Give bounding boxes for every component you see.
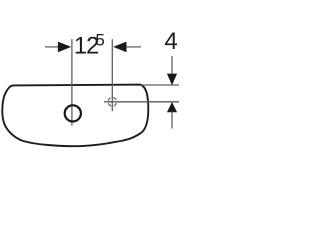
- arrowhead left (points right): [58, 42, 71, 53]
- right extension line / centre-mark vertical: [111, 39, 113, 111]
- svg-text:4: 4: [164, 28, 177, 55]
- arrowhead up: [167, 102, 177, 112]
- dimension line 12.5 right tail: [126, 46, 141, 48]
- centre-mark dashed circle: [108, 98, 117, 107]
- svg-text:5: 5: [95, 30, 104, 49]
- cistern outline: [2, 85, 148, 147]
- vertical dim line 4, lower segment: [171, 112, 173, 129]
- top edge extension line (right): [141, 84, 179, 86]
- arrowhead down: [167, 74, 177, 86]
- dimension line 12.5 left tail: [45, 46, 59, 48]
- arrowhead right (points left): [113, 42, 126, 53]
- flush button circle: [65, 105, 81, 121]
- vertical dim line 4, upper segment: [171, 56, 173, 74]
- left extension line (through button): [71, 39, 73, 125]
- centre-mark horizontal line: [104, 101, 179, 103]
